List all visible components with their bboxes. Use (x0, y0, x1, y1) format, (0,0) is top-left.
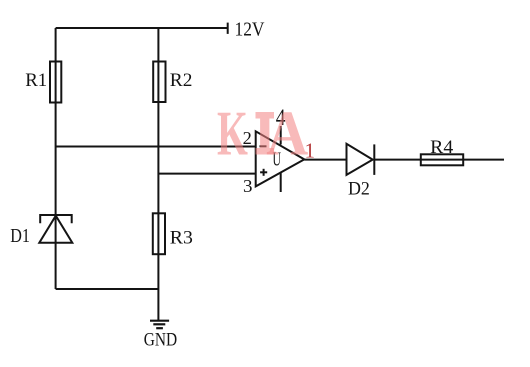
svg-text:GND: GND (144, 329, 177, 350)
diode D2 cathode bar (373, 144, 375, 175)
label 12V (235, 18, 265, 40)
wire D2 to output through R4 (374, 159, 504, 161)
label D2 (348, 179, 370, 200)
resistor R1 (50, 62, 61, 103)
svg-text:R2: R2 (170, 70, 193, 91)
svg-text:D2: D2 (348, 179, 370, 200)
wire R1/D1 left vertical branch (55, 28, 57, 289)
watermark KIA (217, 98, 308, 169)
pin number 1 (red, output) (305, 139, 316, 163)
wire op-amp output to D2 (304, 159, 346, 161)
op-amp minus sign (260, 145, 267, 147)
svg-text:1: 1 (305, 139, 316, 163)
svg-text:D1: D1 (10, 225, 30, 247)
pin number 3 (243, 176, 253, 196)
label GND (144, 329, 177, 350)
ground bar 1 (150, 320, 169, 322)
label R1 (25, 70, 47, 91)
wire top 12V rail (56, 27, 228, 29)
svg-text:3: 3 (243, 176, 253, 196)
label D1 (10, 225, 30, 247)
pin number 2 (243, 128, 252, 148)
label R3 (170, 228, 193, 249)
zener diode D1 triangle (39, 216, 72, 243)
op-amp U top power stub (pin 4) (280, 126, 282, 145)
ground bar 2 (153, 323, 165, 325)
svg-text:R4: R4 (430, 137, 454, 158)
label R4 (430, 137, 454, 158)
resistor R3 (153, 213, 165, 254)
resistor R4 (421, 154, 463, 165)
diode D2 triangle (347, 144, 373, 175)
node 12V terminal tick (227, 23, 229, 34)
wire bottom horizontal (56, 288, 159, 290)
label U (273, 149, 282, 171)
svg-text:R1: R1 (25, 70, 47, 91)
resistor R2 (153, 62, 165, 103)
wire inverting input (pin 2) (56, 146, 256, 148)
svg-text:K: K (217, 98, 248, 169)
wire non-inverting input (pin 3) (158, 173, 255, 175)
ground bar 3 (156, 327, 163, 329)
zener diode D1 cathode bar (40, 215, 71, 223)
op-amp U bottom power stub (280, 173, 282, 192)
op-amp plus sign (260, 169, 267, 176)
svg-text:R3: R3 (170, 228, 193, 249)
pin number 4 (276, 105, 286, 130)
svg-text:12V: 12V (235, 18, 265, 40)
op-amp U triangle (256, 131, 305, 186)
label R2 (170, 70, 193, 91)
wire R2/R3 middle vertical branch (157, 28, 159, 321)
svg-text:A: A (266, 98, 308, 169)
